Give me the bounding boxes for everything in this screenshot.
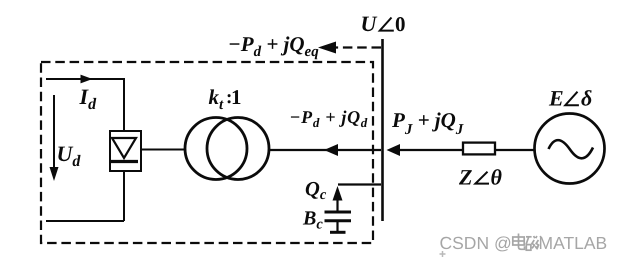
svg-text:CSDN @: CSDN @	[440, 233, 512, 253]
wire: impedance to source	[496, 149, 535, 151]
wire: transformer to bus	[269, 149, 382, 151]
wire: DC loop top	[46, 78, 124, 80]
ground	[330, 231, 346, 234]
wire: DC loop right vertical (above valve)	[123, 78, 125, 130]
node: AC bus U∠0 (vertical busbar)	[381, 39, 384, 221]
transformer T1 (two overlapping circles)	[185, 118, 247, 180]
converter valve V1 (rectangle enclosure)	[110, 131, 141, 171]
dashed arrow -Pd+jQeq from bus	[333, 46, 381, 48]
wire: valve to transformer	[142, 149, 186, 151]
svg-text:−Pd + jQd: −Pd + jQd	[290, 107, 368, 130]
arrow on wire (power flow toward converter)	[324, 144, 338, 156]
svg-text:0: 0	[395, 12, 406, 36]
wire: capacitor to ground	[336, 222, 338, 231]
svg-text:δ: δ	[581, 85, 592, 110]
svg-text:θ: θ	[491, 165, 503, 190]
wire: DC loop bottom	[46, 220, 124, 222]
diode D1 inside valve	[112, 138, 136, 158]
wire: arrow to capacitor	[336, 198, 338, 211]
capacitor Bc (plates)	[325, 211, 352, 214]
svg-text:1: 1	[231, 85, 242, 109]
svg-text:MATLAB: MATLAB	[539, 233, 608, 253]
wire: bus to capacitor branch	[338, 183, 381, 185]
arrow Id (current direction)	[81, 75, 93, 84]
impedance Z1 (rectangle)	[463, 143, 495, 155]
arrow PJ+jQJ into bus	[387, 144, 401, 156]
dashed converter boundary box	[41, 62, 373, 243]
watermark: CSDN @电磁MATLAB	[440, 233, 608, 253]
wire: bus to impedance	[398, 149, 462, 151]
wire: below valve down	[123, 172, 125, 221]
svg-text:Z: Z	[458, 165, 472, 190]
hanzi dian	[518, 234, 520, 248]
arrow Qc (reactive power up)	[333, 186, 343, 201]
stray watermark fragment	[440, 251, 446, 257]
hanzi ci	[526, 236, 532, 238]
AC source G1 (circle with sine)	[535, 114, 605, 184]
arrow Ud (voltage direction, downward)	[53, 95, 55, 172]
svg-text:U: U	[361, 11, 378, 36]
svg-text:E: E	[548, 86, 564, 111]
